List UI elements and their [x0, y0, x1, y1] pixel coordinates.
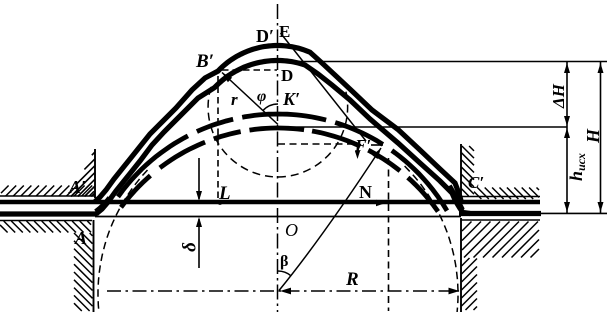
- intermediate dome inner surface (thick dashed): [121, 128, 438, 212]
- outer dimension arrows: [598, 63, 604, 73]
- F-prime small leader arrow: [357, 147, 359, 156]
- upper-right die wall hatching: [462, 146, 475, 196]
- small construction circle r (thin dashed arc): [208, 87, 348, 177]
- dashed vertical from B-prime down to point L: [217, 76, 219, 202]
- svg-text:D: D: [281, 66, 293, 85]
- lower-left die surface line: [0, 220, 92, 222]
- svg-text:L: L: [218, 183, 231, 204]
- upper-left die hatching band: [1, 186, 94, 197]
- inner dimension arrows: [564, 63, 570, 73]
- svg-text:H: H: [583, 128, 603, 144]
- upper-left die surface line: [0, 195, 95, 197]
- sheet top surface line: [0, 200, 540, 204]
- bend ink knot left die edge: [96, 198, 110, 212]
- svg-text:β: β: [280, 253, 288, 270]
- angle beta arc: [278, 271, 291, 276]
- dashed horizontal from B-prime to axis: [222, 69, 277, 71]
- dashed vertical through N: [388, 158, 390, 311]
- top reference line at dome apex (H dimension): [284, 61, 607, 63]
- lower-left die hatching band: [0, 221, 91, 233]
- svg-text:D′: D′: [256, 26, 274, 46]
- final dome inner surface (thick solid): [96, 61, 470, 215]
- upper-right die surface line: [461, 196, 540, 198]
- svg-text:O: O: [285, 220, 298, 240]
- lower-right die wall: [460, 218, 462, 312]
- upper-left die wall: [94, 149, 96, 198]
- svg-text:R: R: [345, 269, 359, 290]
- point marker at N: [376, 200, 386, 206]
- bend ink knot right die edge: [449, 186, 462, 210]
- delta dimension upper arrow: [198, 158, 200, 199]
- centerline (vertical axis): [277, 4, 279, 312]
- svg-text:K′: K′: [282, 89, 300, 109]
- svg-text:r: r: [231, 90, 238, 109]
- right flange bottom thick line: [459, 211, 541, 216]
- upper-left die wall hatching: [71, 152, 95, 197]
- bottom reference thin line to dimensions: [541, 212, 607, 214]
- R dimension dash-dot line: [107, 290, 459, 292]
- sphere R construction circle left arc (thin dashed): [98, 170, 148, 312]
- angle phi arc: [263, 104, 278, 111]
- delta dimension lower arrow: [198, 219, 200, 268]
- upper-right die wall: [460, 144, 462, 198]
- inner dimension line delta-H / h-isx: [566, 62, 568, 213]
- R dimension right arrowhead at die wall: [449, 288, 460, 295]
- svg-text:φ: φ: [257, 88, 266, 105]
- left flange bottom thick line: [0, 211, 97, 216]
- F-prime tick: [371, 144, 383, 146]
- sphere R construction circle right arc (thin dashed): [405, 166, 458, 312]
- svg-text:F′: F′: [354, 136, 371, 155]
- slant radius R line to F-prime: [279, 148, 381, 291]
- final dome outer surface (thick solid): [95, 46, 461, 202]
- svg-text:E: E: [279, 22, 290, 41]
- dashed horizontal from axis to F-prime: [278, 143, 352, 145]
- svg-text:A′: A′: [68, 177, 86, 197]
- radius r line to B-prime: [222, 73, 278, 125]
- svg-text:ΔH: ΔH: [549, 83, 568, 109]
- lower-right die surface line: [461, 219, 540, 221]
- svg-text:B′: B′: [195, 51, 214, 72]
- line E to F-prime: [281, 33, 367, 141]
- lower-left die wall: [93, 220, 95, 312]
- lower-right die wall hatching: [462, 258, 478, 310]
- svg-text:δ: δ: [180, 242, 201, 252]
- intermediate dome outer surface (thick dashed): [118, 114, 447, 211]
- svg-text:C′: C′: [468, 173, 484, 192]
- sheet bottom thin line between dies: [95, 216, 461, 218]
- lower-right die hatching patch: [462, 222, 539, 258]
- lower-left die wall hatching: [74, 233, 93, 311]
- outer dimension line H: [600, 62, 602, 213]
- svg-text:A: A: [74, 228, 87, 248]
- upper-right die hatching band: [474, 188, 539, 200]
- middle reference line at K level: [278, 126, 567, 128]
- point marker at L: [218, 200, 223, 205]
- svg-text:N: N: [359, 182, 372, 202]
- R dimension left arrowhead at axis: [280, 288, 291, 295]
